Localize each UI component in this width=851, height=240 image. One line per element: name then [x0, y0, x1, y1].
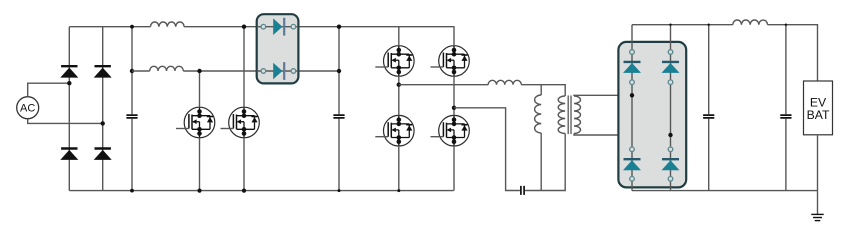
svg-text:AC: AC [20, 103, 35, 115]
wire Q4 drain [453, 27, 455, 46]
node ground rail junctions [130, 189, 400, 193]
node DC link rail2 [337, 69, 341, 73]
wire output cap1 column [708, 25, 710, 191]
wire AC bottom lead [28, 119, 103, 124]
diode D6 [273, 62, 284, 80]
wire left mid to inductor [399, 84, 488, 86]
transistor Q3 [375, 46, 414, 77]
diode D9 [623, 159, 641, 170]
node rail2 start [130, 69, 134, 73]
wire right mid down [454, 108, 520, 191]
node C1 top [130, 25, 134, 29]
transistor Q6 [431, 115, 470, 146]
inductor Lr [488, 80, 521, 84]
wire output cap2 column [785, 25, 787, 191]
node bridge left mid [397, 83, 401, 87]
diode D5 [273, 18, 284, 36]
node Q2 drain junction [242, 25, 246, 29]
pin D8 bottom [668, 80, 673, 85]
wire Q1 drain [199, 71, 201, 108]
PFC boost diode box [257, 14, 299, 83]
wire rail2 mid [183, 70, 339, 72]
pin D10 top [668, 147, 673, 152]
wire rail2 [132, 70, 150, 72]
pin D9 bottom [630, 177, 635, 182]
inductor Lm [535, 85, 542, 191]
wire through box rail1 [257, 26, 299, 28]
wire Q4-Q6 leg [453, 76, 455, 116]
transistor Q5 [375, 115, 414, 146]
capacitor C2 [333, 115, 344, 118]
transformer T1 primary [558, 96, 565, 134]
transistor Q1 [176, 107, 215, 138]
wire input filter column [131, 27, 133, 191]
svg-text:BAT: BAT [807, 108, 830, 122]
wire Q6 source [453, 146, 455, 191]
transformer T1 core [568, 96, 571, 135]
capacitor C1 [126, 115, 137, 118]
wire output top rail right [768, 25, 818, 81]
wire Q3 drain [398, 27, 400, 46]
node AC-top junction [67, 81, 71, 85]
transistor Q4 [431, 46, 470, 77]
wire top rail left [69, 26, 150, 28]
EV battery box [804, 81, 833, 135]
transformer T1 secondary [574, 96, 581, 134]
diode D7 [623, 62, 641, 73]
wire primary ground rail [69, 190, 453, 192]
pin D7 bottom [630, 80, 635, 85]
wire Lr to primary [521, 85, 565, 96]
pin D7 top [630, 50, 635, 55]
wire DC link column [338, 27, 340, 191]
node output rail junctions [669, 24, 787, 26]
wire bridge left column [68, 27, 70, 191]
wire secondary top [574, 94, 632, 97]
wire rectifier left column [631, 25, 633, 191]
node bridge right mid [452, 106, 456, 110]
wire Q2 drain [243, 27, 245, 108]
transistor Q2 [221, 107, 260, 138]
capacitor Cb [521, 186, 524, 195]
diode D10 [662, 159, 680, 170]
wire Q1 source [199, 138, 201, 191]
wire Q5 source [398, 146, 400, 191]
diode D2 [94, 66, 112, 77]
wire top rail mid [184, 26, 454, 28]
capacitor C4 [780, 115, 791, 118]
ground [811, 214, 823, 220]
inductor L1 [151, 22, 185, 27]
AC source [17, 97, 39, 119]
pin D6 cathode [291, 69, 296, 74]
wire Q3-Q5 leg [398, 76, 400, 116]
diode D3 [60, 149, 78, 160]
pin D6 anode [261, 69, 266, 74]
pin D10 bottom [668, 177, 673, 182]
wire secondary bottom [574, 134, 671, 136]
pin D5 cathode [291, 24, 296, 29]
wire rectifier right column [670, 25, 672, 191]
diode D8 [662, 62, 680, 73]
wire output ground rail [632, 190, 818, 192]
output rectifier box [618, 42, 686, 188]
wire bridge right column [102, 27, 104, 191]
diode D1 [60, 66, 78, 77]
node Q1 drain junction [197, 69, 201, 73]
inductor Lo [733, 20, 768, 25]
wire Q2 source [243, 138, 245, 191]
wire Cb to primary bottom [525, 134, 565, 191]
wire AC top lead [28, 83, 70, 97]
wire output top rail [632, 24, 733, 26]
node AC-bottom junction [101, 121, 105, 125]
node secondary top junction [630, 93, 634, 97]
wire battery bottom [817, 135, 819, 215]
pin D8 top [668, 50, 673, 55]
inductor L2 [150, 66, 184, 71]
pin D5 anode [261, 24, 266, 29]
diode D4 [94, 149, 112, 160]
node DC link top [337, 25, 341, 29]
node secondary bottom junction [668, 133, 672, 137]
wire through box rail2 [257, 70, 299, 72]
capacitor C3 [703, 115, 714, 118]
pin D9 top [630, 147, 635, 152]
